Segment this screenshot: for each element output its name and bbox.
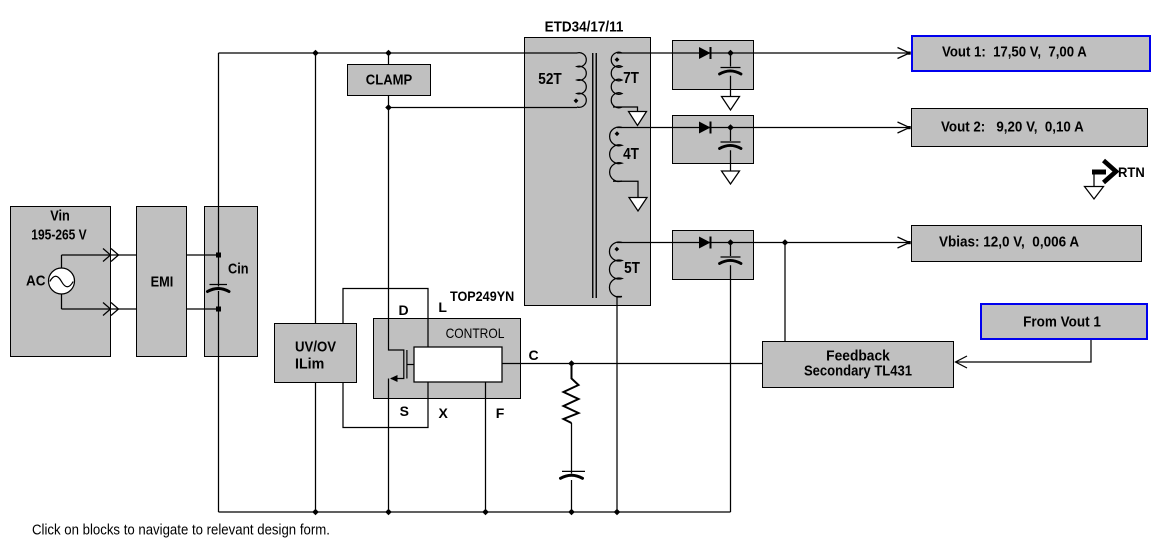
wire UV/OV to ground rail — [315, 383, 317, 512]
label ILim — [295, 356, 324, 373]
arrow chevrons top AC wire — [103, 249, 119, 262]
block CLAMP — [347, 64, 431, 96]
phase dot primary — [574, 98, 579, 103]
wire 4T return — [613, 181, 638, 197]
RTN arrow symbol — [1092, 161, 1116, 187]
capacitor rectifier 1 — [720, 53, 742, 97]
wire top rail DC bus — [219, 52, 578, 54]
label Vout 2 value — [941, 118, 1084, 135]
wire clamp top connection — [388, 53, 390, 64]
MOSFET TOPSwitch internal — [389, 318, 415, 382]
ground triangle RTN — [1085, 187, 1104, 200]
label Secondary TL431 — [804, 363, 912, 380]
diode rectifier bias — [699, 237, 711, 249]
junction node rail at control RC — [568, 509, 575, 516]
wire bias output to Vbias — [617, 242, 908, 244]
junction node rail at source — [385, 509, 392, 516]
capacitor rectifier 2 — [720, 128, 742, 172]
junction node rect1 — [727, 50, 734, 57]
AC source symbol — [49, 268, 75, 294]
phase dot 4T — [615, 131, 620, 136]
wire 7T return — [613, 107, 638, 112]
wire drain vertical to TOPSwitch — [388, 108, 390, 319]
label 195-265 V — [31, 227, 86, 244]
rectifier block output 1 — [672, 40, 754, 90]
transformer block ETD34/17/11 — [524, 37, 651, 306]
arrow into Vout 1 — [898, 48, 911, 59]
label Vout 1 value — [942, 43, 1087, 60]
wire output 2 to Vout2 — [617, 127, 908, 129]
junction node primary drain — [385, 104, 392, 111]
transformer core — [593, 53, 597, 298]
CONTROL white box — [414, 347, 502, 382]
label pin C — [529, 347, 539, 363]
label EMI — [150, 273, 173, 290]
block Vout 1 (selected, blue) — [911, 35, 1151, 72]
wire EMI to Cin bottom — [187, 308, 219, 310]
arrow into Vout 2 — [898, 122, 911, 133]
block UV/OV ILim — [274, 323, 357, 383]
junction node top rail at clamp — [385, 50, 392, 57]
wire 5T return to rail — [617, 297, 622, 513]
label Vin — [50, 208, 70, 225]
label Vbias value — [939, 233, 1079, 250]
wire F pin to ground rail — [485, 382, 487, 512]
ground triangle rectifier 1 — [722, 97, 740, 111]
label TOP249YN — [450, 288, 514, 304]
label pin L — [438, 299, 447, 315]
winding primary 52T — [577, 53, 586, 108]
caption click instruction — [32, 521, 330, 538]
label CONTROL — [446, 325, 505, 341]
label CLAMP — [366, 72, 412, 89]
wire UV/OV sense vertical upper — [315, 53, 317, 323]
label 52T — [538, 71, 561, 89]
arrow into feedback — [956, 356, 968, 368]
phase dot 7T — [615, 57, 620, 62]
junction square Cin top — [216, 253, 221, 258]
block Vbias — [911, 225, 1142, 262]
wire feedback supply tap — [784, 243, 786, 342]
junction node bias feedback tap — [782, 239, 789, 246]
arrow chevrons bottom AC wire — [103, 303, 119, 316]
rectifier block bias — [672, 230, 754, 280]
winding secondary 7T — [611, 52, 622, 108]
label pin F — [496, 405, 505, 421]
junction node rail at 5T return — [614, 509, 621, 516]
wire clamp bottom to primary node — [388, 96, 390, 108]
wire primary bottom to transformer — [389, 107, 578, 109]
block EMI — [136, 206, 187, 357]
resistor control pin — [564, 364, 579, 474]
wire C pin to feedback — [502, 363, 762, 365]
block Vout 2 — [911, 108, 1148, 147]
wire L pin routing to UV/OV — [343, 289, 428, 348]
wire EMI to Cin top — [187, 254, 219, 256]
capacitor rectifier bias — [720, 243, 742, 513]
wire output 1 to Vout1 — [617, 52, 908, 54]
label 7T — [623, 70, 639, 88]
phase dot 5T — [614, 247, 619, 252]
junction node rect bias — [727, 239, 734, 246]
label 4T — [623, 146, 639, 164]
wire left input vertical through Cin — [218, 53, 220, 512]
label From Vout 1 — [1023, 313, 1101, 330]
label AC — [26, 273, 46, 290]
winding bias 5T — [609, 242, 622, 297]
wire AC to EMI top — [62, 255, 137, 268]
junction node rect2 — [727, 124, 734, 131]
ground triangle 4T return — [629, 198, 647, 212]
winding secondary 4T — [610, 127, 622, 181]
wire source to ground rail — [388, 379, 390, 513]
diode rectifier 1 — [699, 47, 711, 59]
junction node top rail at UV/OV — [312, 50, 319, 57]
label 5T — [624, 260, 640, 278]
label UV/OV — [295, 339, 336, 356]
junction node C pin RC — [568, 360, 575, 367]
label ETD34/17/11 — [544, 18, 623, 35]
junction square Cin bottom — [216, 307, 221, 312]
block From Vout 1 (blue) — [980, 303, 1148, 340]
wire bottom primary return rail — [219, 511, 731, 513]
capacitor Cin symbol — [208, 285, 230, 292]
label pin X — [439, 405, 448, 421]
ground triangle rectifier 2 — [722, 171, 740, 184]
wire X pin routing to UV/OV — [343, 382, 428, 428]
junction node rail at F pin — [482, 509, 489, 516]
wire AC to EMI bottom — [62, 294, 137, 309]
label Feedback — [826, 348, 890, 365]
label pin D — [398, 302, 408, 318]
label pin S — [400, 403, 409, 419]
label Cin — [228, 261, 249, 278]
wire From Vout 1 to feedback — [956, 340, 1091, 362]
diode rectifier 2 — [699, 122, 711, 134]
block Vin — [10, 206, 111, 357]
block Cin — [204, 206, 258, 357]
arrow into Vbias — [898, 237, 911, 248]
label RTN — [1118, 164, 1145, 180]
block Feedback Secondary TL431 — [762, 341, 954, 388]
junction node rail at UV/OV — [312, 509, 319, 516]
rectifier block output 2 — [672, 115, 754, 164]
ground triangle 7T return — [629, 112, 647, 126]
IC block TOP249YN — [373, 318, 521, 399]
capacitor control pin — [561, 471, 586, 512]
